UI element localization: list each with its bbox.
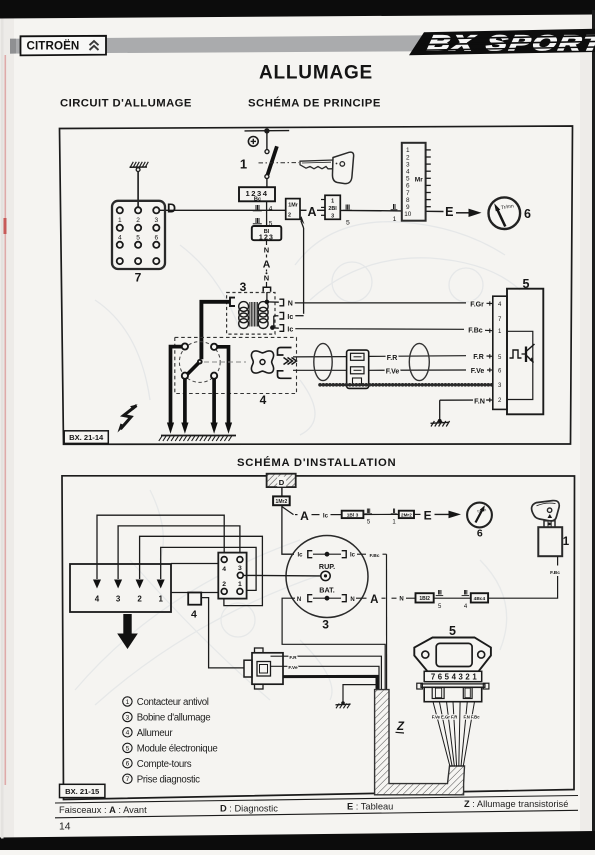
BX. 21-14 tag [64, 431, 108, 444]
scan edge: bottom black bar [0, 831, 595, 850]
module connector housing [417, 683, 489, 702]
svg-text:7: 7 [126, 776, 130, 783]
svg-text:Allumeur: Allumeur [137, 728, 174, 739]
svg-text:6: 6 [126, 761, 130, 768]
svg-text:7: 7 [431, 673, 435, 682]
label Z [396, 721, 405, 733]
svg-text:3: 3 [126, 714, 130, 721]
connector 1Mr2 [273, 496, 290, 505]
wire: main line D to E [160, 210, 444, 211]
connector mark III 4 [253, 203, 273, 213]
connector 2Mr2 [399, 511, 414, 518]
label F.R right [473, 354, 493, 361]
RUP center terminal [321, 571, 330, 580]
connector 1Bl2 [416, 593, 434, 602]
svg-text:Mr: Mr [415, 177, 423, 184]
pulse + transistor symbol [510, 344, 535, 363]
svg-text:N: N [264, 246, 269, 255]
connector Bl 123 [252, 226, 281, 241]
svg-text:3: 3 [238, 565, 242, 572]
svg-text:Ic: Ic [287, 326, 293, 333]
svg-text:1: 1 [563, 536, 570, 548]
svg-text:5: 5 [449, 624, 456, 638]
rotor [186, 359, 203, 376]
wire D to connector [281, 487, 283, 496]
harness Z hatched [375, 690, 465, 795]
svg-text:A: A [300, 509, 309, 523]
svg-text:Compte-tours: Compte-tours [137, 759, 192, 770]
svg-text:ALLUMAGE: ALLUMAGE [259, 63, 373, 84]
svg-text:F.Ve E.Gr F.R: F.Ve E.Gr F.R [432, 715, 458, 720]
wire F.Ve to harness [283, 665, 379, 690]
svg-text:9: 9 [406, 204, 410, 211]
spark plug leads (thick) [171, 347, 229, 424]
wire block to connector [171, 563, 218, 565]
module pin numbers 7-1 [424, 671, 482, 681]
svg-text:N: N [297, 597, 301, 603]
svg-text:E: E [445, 205, 453, 219]
svg-text:CIRCUIT D'ALLUMAGE: CIRCUIT D'ALLUMAGE [60, 98, 192, 110]
connector 1Mr 2 [286, 199, 300, 220]
svg-text:BAT.: BAT. [319, 585, 334, 594]
wire [363, 513, 398, 515]
svg-text:8: 8 [406, 197, 410, 204]
svg-text:2: 2 [288, 213, 291, 219]
connector mark II 1 [391, 202, 398, 223]
svg-text:D: D [167, 202, 176, 216]
svg-text:F.R: F.R [387, 355, 398, 362]
svg-text:SCHÉMA D'INSTALLATION: SCHÉMA D'INSTALLATION [237, 456, 396, 469]
svg-text:1Bl 3: 1Bl 3 [347, 512, 359, 518]
connector 7 [112, 201, 165, 285]
arrow to tachometer [456, 209, 482, 217]
connector 2Bl [321, 195, 340, 219]
footer rule bottom [55, 810, 578, 818]
svg-text:6: 6 [154, 234, 158, 241]
ground symbol [336, 701, 351, 708]
svg-text:BX. 21-14: BX. 21-14 [69, 433, 104, 442]
svg-text:4Bc4: 4Bc4 [474, 596, 486, 602]
svg-text:N: N [399, 597, 403, 603]
wire + label E [414, 508, 432, 522]
svg-text:A: A [370, 594, 378, 606]
wire: battery feed [245, 131, 290, 150]
wire N-A-N to coil [263, 240, 271, 287]
coil terminal Ic bottom to F.Bc [270, 325, 493, 335]
svg-text:2Bl: 2Bl [328, 206, 337, 212]
svg-text:3: 3 [322, 618, 329, 632]
svg-text:1Mr2: 1Mr2 [276, 499, 288, 505]
svg-text:1: 1 [126, 699, 130, 706]
svg-text:1: 1 [472, 673, 477, 682]
BAT terminal row [297, 595, 367, 603]
plug lead connector block [218, 553, 246, 599]
connector 1Bl3 [342, 511, 364, 519]
svg-text:5: 5 [346, 219, 350, 226]
ground tap wire [343, 685, 377, 703]
svg-text:Ic: Ic [287, 314, 293, 321]
CITROEN logo box [21, 36, 107, 56]
tachometer 6 [489, 197, 532, 229]
scan edge: right black strip [592, 10, 595, 850]
diagnostic socket D (7) [267, 474, 296, 487]
svg-text:3: 3 [331, 214, 334, 220]
RUP terminal row [297, 551, 386, 559]
svg-text:3: 3 [406, 161, 410, 168]
ground above connector 7 [130, 162, 149, 207]
coil primary bracket [230, 298, 235, 306]
svg-text:Ic: Ic [350, 553, 356, 559]
svg-text:4: 4 [191, 609, 197, 621]
svg-text:E: E [424, 508, 432, 522]
svg-text:2: 2 [406, 154, 410, 161]
svg-text:Z : Allumage transistorisé: Z : Allumage transistorisé [464, 799, 568, 809]
svg-text:F.N F.Bc: F.N F.Bc [463, 715, 480, 720]
coil N input bracket [263, 287, 270, 292]
svg-text:N: N [288, 301, 293, 308]
svg-text:D : Diagnostic: D : Diagnostic [220, 803, 278, 813]
svg-text:F.Ve: F.Ve [386, 369, 400, 376]
svg-text:A: A [263, 259, 271, 271]
wire: HT king lead (thick) [201, 302, 230, 359]
label A row [295, 509, 342, 523]
svg-text:SCHÉMA DE PRINCIPE: SCHÉMA DE PRINCIPE [248, 97, 381, 110]
svg-text:2: 2 [222, 581, 226, 588]
svg-text:Faisceaux : A : Avant: Faisceaux : A : Avant [59, 805, 147, 815]
svg-text:N: N [264, 274, 269, 283]
connector mark III 5 right [343, 202, 352, 226]
svg-text:2Mr2: 2Mr2 [401, 512, 412, 517]
svg-text:1: 1 [238, 581, 242, 588]
svg-text:1: 1 [331, 198, 334, 204]
module 5 plate [414, 638, 491, 672]
connector Mr 10-pin [402, 143, 431, 221]
wire RUP to connector [243, 574, 320, 577]
svg-text:3: 3 [116, 595, 121, 604]
svg-text:7: 7 [135, 271, 142, 285]
wire: down to coil Ic [282, 505, 294, 554]
svg-text:CITROËN: CITROËN [27, 40, 80, 53]
svg-text:F.Ve: F.Ve [471, 368, 485, 375]
svg-text:D: D [279, 478, 285, 487]
scan edge: left pink line [5, 55, 7, 785]
big arrow down [117, 614, 138, 649]
svg-text:F.Ve: F.Ve [288, 665, 298, 671]
svg-text:3: 3 [154, 217, 158, 224]
BX. 21-15 tag [60, 784, 105, 797]
svg-text:2: 2 [136, 217, 140, 224]
svg-text:5: 5 [445, 673, 450, 682]
plug wires 4,3,2,1 [97, 515, 262, 605]
ground strip under plugs [159, 436, 236, 442]
pickup connector bracket [278, 348, 297, 379]
bottom diagram frame [62, 476, 575, 800]
brand band gray [10, 35, 434, 53]
svg-text:Z: Z [396, 721, 405, 733]
wire branch to A row [282, 507, 293, 515]
coil terminal Ic top [274, 312, 304, 327]
mark III 4 [462, 590, 470, 610]
mark II 1 [391, 508, 397, 526]
top diagram frame [60, 126, 573, 444]
svg-text:Ic: Ic [297, 553, 303, 559]
svg-text:1Mr: 1Mr [288, 203, 298, 209]
svg-text:5: 5 [136, 234, 140, 241]
module wire labels [432, 715, 480, 720]
lightning bolt symbol [118, 404, 138, 432]
svg-text:F.R: F.R [289, 655, 297, 661]
svg-text:Module électronique: Module électronique [137, 744, 218, 755]
ignition switch 1 [240, 146, 277, 187]
HT lead thick to harness [283, 676, 377, 690]
legend list [123, 697, 218, 786]
distributor 4 dashed box [175, 337, 297, 393]
mark III 5 [436, 590, 444, 610]
scan edge: top black bar [0, 0, 595, 19]
svg-text:4: 4 [260, 393, 267, 407]
distributor plug 4 [244, 648, 283, 689]
reluctor clover [204, 351, 274, 373]
wire F.Bc vertical to harness [386, 554, 388, 690]
wire [434, 597, 471, 599]
svg-text:4: 4 [95, 595, 100, 604]
module harness wires [433, 702, 475, 767]
mark III 5 [365, 508, 373, 526]
cable grommet ellipse 2 [409, 343, 429, 380]
svg-text:4: 4 [222, 566, 226, 573]
svg-text:Contacteur antivol: Contacteur antivol [137, 697, 209, 708]
distributor contacts [182, 343, 217, 378]
svg-text:F.Bc: F.Bc [468, 328, 483, 335]
svg-text:4: 4 [452, 673, 457, 682]
tachometer 6 (bottom) [467, 503, 492, 540]
wire F.N with ground [440, 396, 493, 420]
ignition coil 3 [227, 280, 275, 334]
svg-text:6: 6 [438, 673, 443, 682]
wire + node: coil N [267, 292, 279, 302]
BAT row labels A N and connectors [370, 594, 415, 606]
wire: switch to coil feed [266, 201, 268, 226]
svg-text:4: 4 [406, 169, 410, 176]
svg-text:F.Bc: F.Bc [369, 553, 379, 559]
svg-text:6: 6 [477, 528, 483, 540]
wires F.R / F.Ve [293, 356, 466, 371]
inline connector block [347, 350, 369, 388]
svg-text:2: 2 [137, 595, 142, 604]
coil terminal N to F.Gr wire [279, 299, 492, 308]
wire down to distributor plug [201, 598, 244, 668]
contacteur antivol 1 (key) [532, 501, 570, 557]
wire: switched feed down to coil [300, 216, 305, 314]
node: feed junction [264, 128, 269, 133]
connector mark III 5 [253, 216, 273, 228]
plus terminal symbol [248, 137, 258, 147]
spark plug block [70, 564, 171, 612]
svg-text:E : Tableau: E : Tableau [347, 802, 393, 812]
svg-text:1: 1 [240, 157, 247, 172]
svg-text:F.Gr: F.Gr [470, 301, 484, 308]
module 5 pin strip [490, 296, 507, 409]
svg-text:RUP.: RUP. [319, 562, 335, 571]
svg-text:4: 4 [118, 234, 122, 241]
spark arrows to ground [167, 423, 232, 434]
ground symbol F.N [431, 419, 450, 427]
svg-text:1: 1 [118, 217, 122, 224]
svg-text:14: 14 [59, 822, 71, 833]
svg-text:1: 1 [393, 216, 397, 223]
module 5 body [507, 289, 543, 415]
connector Bc 1234 [239, 187, 275, 202]
svg-text:BX. 21-15: BX. 21-15 [65, 787, 100, 796]
wire F.R to harness [283, 655, 381, 690]
svg-text:3: 3 [459, 673, 464, 682]
svg-text:N: N [350, 597, 354, 603]
label F.Ve right [471, 368, 493, 375]
svg-text:F.R: F.R [473, 354, 484, 361]
svg-text:5: 5 [126, 745, 130, 752]
svg-text:7: 7 [406, 190, 410, 197]
arrow to tach [435, 511, 462, 519]
key icon [259, 152, 354, 183]
footer rule top [55, 796, 578, 804]
cable grommet ellipse 1 [314, 343, 332, 380]
wire F.Bc from key [488, 556, 560, 598]
shield braid wire [320, 383, 492, 387]
connector 4Bc [471, 593, 488, 602]
distributor circle [179, 342, 220, 383]
svg-text:6: 6 [524, 207, 531, 221]
ignition coil 3 (top view) [286, 536, 368, 618]
wire BAT-N to harness [282, 598, 385, 690]
svg-text:Bc: Bc [254, 196, 261, 202]
svg-text:Prise diagnostic: Prise diagnostic [137, 775, 200, 786]
connector 4 small [188, 593, 201, 621]
svg-text:Ic: Ic [323, 512, 329, 519]
svg-text:10: 10 [404, 211, 412, 218]
BX SPORT band [409, 29, 595, 55]
svg-text:4: 4 [269, 205, 273, 212]
footer legend: faisceaux [59, 799, 568, 815]
svg-text:6: 6 [406, 183, 410, 190]
svg-text:A: A [307, 205, 316, 219]
svg-text:1Bl2: 1Bl2 [419, 596, 430, 602]
svg-text:3: 3 [240, 280, 247, 294]
svg-text:F.Bc: F.Bc [550, 570, 560, 576]
svg-text:1: 1 [158, 595, 163, 604]
svg-text:5: 5 [406, 176, 410, 183]
svg-text:2: 2 [465, 673, 470, 682]
svg-text:1: 1 [406, 147, 410, 154]
svg-text:Bobine d'allumage: Bobine d'allumage [137, 713, 210, 724]
svg-text:F.N: F.N [474, 396, 485, 405]
svg-text:4: 4 [126, 730, 130, 737]
